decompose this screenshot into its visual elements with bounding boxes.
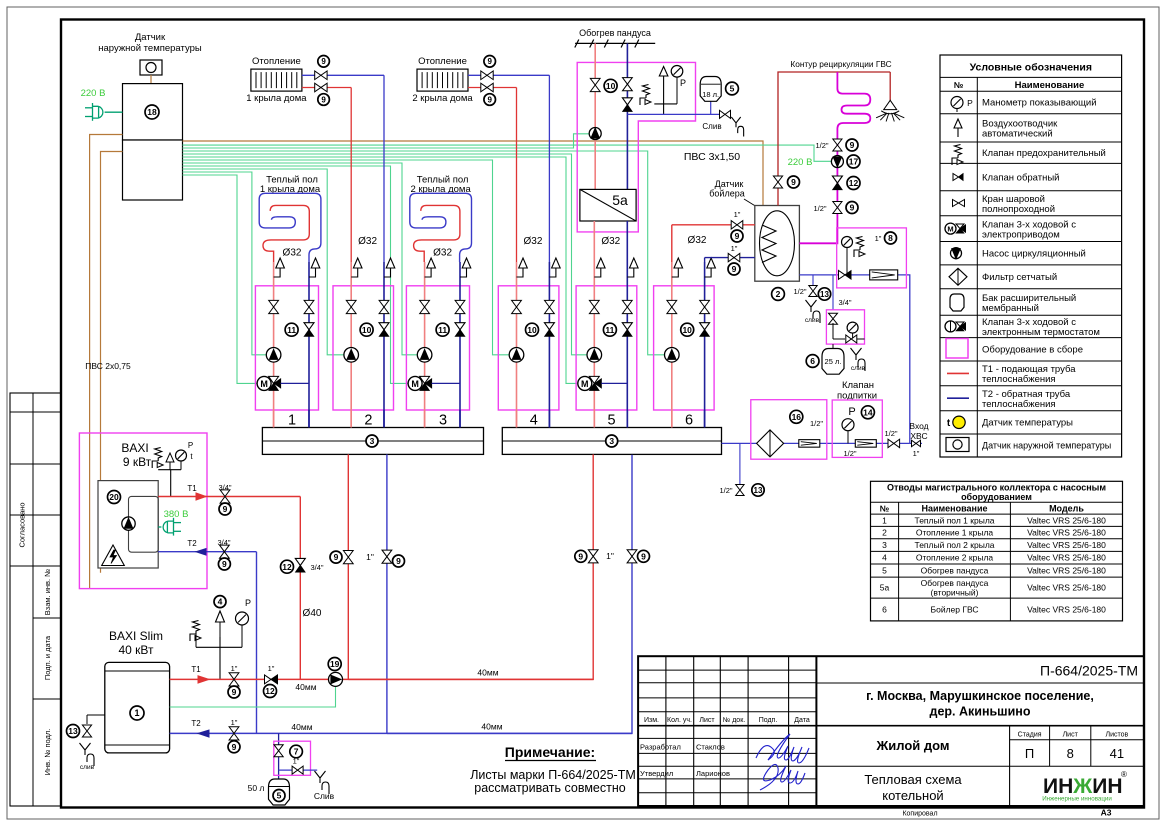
air vent return xyxy=(627,268,634,277)
svg-text:Ларионов: Ларионов xyxy=(696,769,730,778)
designator 13 xyxy=(752,484,764,496)
svg-text:12: 12 xyxy=(265,686,275,696)
check valve xyxy=(292,766,303,774)
designator 14 xyxy=(861,406,874,419)
svg-text:Ø32: Ø32 xyxy=(358,236,377,247)
svg-text:4: 4 xyxy=(882,553,887,563)
manometer xyxy=(842,419,854,431)
expansion tank 50 л xyxy=(269,779,290,805)
group 3 return pipe xyxy=(459,262,461,428)
drain hook xyxy=(315,771,330,794)
svg-text:Бойлер ГВС: Бойлер ГВС xyxy=(931,605,979,615)
control wires bundle from controller xyxy=(183,145,832,161)
svg-text:10: 10 xyxy=(682,325,692,335)
pipe stub to collector xyxy=(350,410,352,428)
svg-text:Клапан предохранительный: Клапан предохранительный xyxy=(982,148,1106,159)
safety valve xyxy=(640,85,650,106)
designator 9 xyxy=(318,94,330,106)
svg-text:Обогрев пандуса: Обогрев пандуса xyxy=(921,566,989,576)
svg-text:7: 7 xyxy=(294,747,299,757)
circulation pump group 4 xyxy=(509,348,524,363)
svg-text:9: 9 xyxy=(487,57,492,66)
designator 9 xyxy=(788,176,800,188)
drain hook xyxy=(80,743,95,766)
svg-text:11: 11 xyxy=(287,325,296,335)
svg-text:4: 4 xyxy=(218,597,223,607)
svg-text:5: 5 xyxy=(608,413,616,429)
designator 13 xyxy=(818,288,830,300)
svg-text:2: 2 xyxy=(776,289,781,299)
pipe radiator supply xyxy=(302,87,351,89)
valve ball xyxy=(315,83,327,92)
svg-text:Valtec VRS 25/6-180: Valtec VRS 25/6-180 xyxy=(1027,583,1106,593)
svg-text:220 В: 220 В xyxy=(81,88,106,99)
check valve return xyxy=(700,323,710,330)
legend table xyxy=(940,55,1122,457)
pump group 2 box xyxy=(333,286,394,410)
make-up box xyxy=(826,310,864,344)
svg-text:41: 41 xyxy=(1110,746,1124,761)
svg-text:20: 20 xyxy=(109,492,119,502)
svg-text:Лист: Лист xyxy=(1063,732,1079,739)
floor coil 2 крыла дома supply xyxy=(414,205,460,262)
air vent return xyxy=(384,268,391,277)
drain tee below collector xyxy=(739,443,741,484)
svg-text:Утвердил: Утвердил xyxy=(640,769,673,778)
svg-text:9 кВт: 9 кВт xyxy=(123,455,152,469)
svg-text:Вход: Вход xyxy=(909,421,928,431)
valve ball supply xyxy=(346,300,356,313)
designator 9 xyxy=(484,56,496,68)
svg-text:1/2": 1/2" xyxy=(810,419,823,428)
svg-text:10: 10 xyxy=(362,325,372,335)
svg-text:9: 9 xyxy=(334,552,339,562)
svg-text:Слив: Слив xyxy=(314,791,335,801)
drain hook xyxy=(731,117,743,137)
svg-text:Стаклов: Стаклов xyxy=(696,743,725,752)
pump designator 11 xyxy=(603,323,616,336)
svg-text:1": 1" xyxy=(231,718,238,727)
manometer xyxy=(842,237,853,248)
svg-text:Фильтр сетчатый: Фильтр сетчатый xyxy=(982,272,1057,283)
drain valve 13 at boiler xyxy=(87,714,105,716)
svg-text:теплоснабжения: теплоснабжения xyxy=(982,399,1056,410)
svg-text:9: 9 xyxy=(735,231,740,241)
drain tee 13 xyxy=(812,275,814,285)
svg-text:Датчик наружной температуры: Датчик наружной температуры xyxy=(982,441,1111,451)
svg-text:3: 3 xyxy=(882,540,887,550)
valve ball return xyxy=(455,300,465,313)
valve ball xyxy=(888,439,900,447)
svg-text:П: П xyxy=(1025,746,1034,761)
svg-text:11: 11 xyxy=(605,325,614,335)
air vent supply xyxy=(594,268,601,277)
supply drop from collector 2 xyxy=(348,454,593,679)
valve ball xyxy=(343,551,353,564)
circulation pump group 6 xyxy=(665,348,680,363)
svg-text:Обогрев пандуса: Обогрев пандуса xyxy=(579,28,651,38)
return drop to collector 1 xyxy=(386,454,388,733)
safety valve xyxy=(190,621,200,642)
svg-text:12: 12 xyxy=(849,178,859,188)
designator 5 xyxy=(726,82,739,95)
DHW supply from T1 xyxy=(672,224,755,226)
floor coil 1 крыла дома supply xyxy=(263,205,309,262)
sidebar label Инв. № подл. xyxy=(43,729,52,776)
drain hook xyxy=(806,300,821,323)
svg-text:1: 1 xyxy=(882,515,887,525)
group 2 supply pipe xyxy=(350,262,352,428)
svg-text:9: 9 xyxy=(487,95,492,104)
svg-text:Ø32: Ø32 xyxy=(688,235,707,246)
hot water riser xyxy=(778,72,890,206)
svg-text:№: № xyxy=(880,504,890,514)
pipe T2 to BAXI 9 xyxy=(158,551,256,553)
inlet valve xyxy=(910,442,922,444)
valve ball xyxy=(829,313,838,324)
internal pump xyxy=(122,517,135,530)
valve ball xyxy=(773,176,782,188)
svg-text:наружной температуры: наружной температуры xyxy=(98,43,202,54)
svg-text:Отопление: Отопление xyxy=(418,56,467,67)
svg-text:1: 1 xyxy=(288,413,296,429)
pipe T1 BAXI Slim xyxy=(170,678,594,680)
pump ramp circuit xyxy=(589,128,601,140)
circulation pump group 5 xyxy=(587,348,602,363)
valve ball xyxy=(623,78,633,91)
svg-text:10: 10 xyxy=(606,81,616,91)
DHW return to T2 xyxy=(705,257,755,259)
pump group 5 box xyxy=(576,286,637,410)
group 5 return pipe xyxy=(626,262,628,428)
designator 8 xyxy=(885,232,897,244)
flow arrow T2 xyxy=(196,549,206,556)
flow arrow T1 xyxy=(198,676,209,683)
svg-text:1": 1" xyxy=(913,449,920,458)
svg-text:1 крыла дома: 1 крыла дома xyxy=(246,93,307,104)
svg-text:Оборудование в сборе: Оборудование в сборе xyxy=(982,345,1083,356)
svg-text:Копировал: Копировал xyxy=(902,811,937,818)
title block object name xyxy=(816,765,1143,767)
svg-text:Слив: Слив xyxy=(702,122,721,131)
pipe stub to collector xyxy=(516,410,518,428)
valve ball return xyxy=(545,300,555,313)
sidebar stamp table xyxy=(10,393,61,806)
valve ball return xyxy=(379,300,389,313)
svg-text:9: 9 xyxy=(321,95,326,104)
title block document number xyxy=(816,682,1143,684)
svg-text:ПВС 3х1,50: ПВС 3х1,50 xyxy=(684,151,740,163)
valve ball xyxy=(481,83,493,92)
group 1 return pipe xyxy=(308,262,310,428)
plug 220V xyxy=(92,103,94,121)
circulation pump group 3 xyxy=(417,348,432,363)
svg-text:Клапан обратный: Клапан обратный xyxy=(982,172,1060,183)
svg-text:М: М xyxy=(581,379,589,389)
make-up water line xyxy=(722,442,910,444)
collector 2 (groups 4-6) xyxy=(502,428,721,455)
svg-text:8: 8 xyxy=(1067,746,1074,761)
valve ball xyxy=(229,727,239,740)
heat exchanger 5a xyxy=(580,189,636,221)
check valve return xyxy=(304,323,314,330)
designator 19 xyxy=(328,658,341,671)
controller U18 box xyxy=(123,84,183,140)
svg-text:ПВС 2х0,75: ПВС 2х0,75 xyxy=(85,361,131,371)
svg-text:Стадия: Стадия xyxy=(1018,732,1042,739)
svg-text:P: P xyxy=(848,406,855,418)
valve ball return xyxy=(622,300,632,313)
svg-text:17: 17 xyxy=(849,157,859,167)
svg-text:®: ® xyxy=(1121,770,1127,779)
svg-text:5: 5 xyxy=(882,566,887,576)
sidebar label Взам. инв. № xyxy=(43,569,52,615)
svg-text:1/2": 1/2" xyxy=(843,449,856,458)
svg-text:BAXI Slim: BAXI Slim xyxy=(109,629,163,643)
svg-text:1": 1" xyxy=(231,664,238,673)
svg-text:9: 9 xyxy=(850,203,855,213)
svg-text:9: 9 xyxy=(578,551,583,561)
svg-text:слив: слив xyxy=(80,764,95,771)
shower outlet xyxy=(889,72,891,100)
svg-text:электронным термостатом: электронным термостатом xyxy=(982,327,1100,338)
cable to boiler sensor xyxy=(183,141,764,206)
boiler internal circuit xyxy=(129,496,159,552)
air vent supply xyxy=(425,268,432,277)
boiler BAXI 9 box xyxy=(98,481,158,568)
pipe radiator supply xyxy=(468,87,517,89)
designator 9 xyxy=(728,263,740,275)
valve ball xyxy=(315,71,327,80)
designator 9 xyxy=(330,551,342,563)
svg-text:2: 2 xyxy=(882,528,887,538)
svg-text:9: 9 xyxy=(732,264,737,274)
svg-text:Кол. уч.: Кол. уч. xyxy=(667,717,692,724)
svg-text:дер. Акиньшино: дер. Акиньшино xyxy=(930,705,1031,719)
filter box 16 xyxy=(751,400,827,460)
svg-text:Т2: Т2 xyxy=(187,539,197,548)
flow arrow T2 xyxy=(198,730,209,737)
P t gauge xyxy=(176,450,187,461)
title block address xyxy=(816,725,1143,727)
svg-text:3/4": 3/4" xyxy=(838,298,851,307)
3-way valve with drive xyxy=(578,376,592,390)
svg-text:Подп. и дата: Подп. и дата xyxy=(43,635,52,680)
safety group bar xyxy=(654,103,677,105)
svg-text:автоматический: автоматический xyxy=(982,129,1053,140)
designator 7 xyxy=(290,745,303,758)
svg-text:5а: 5а xyxy=(612,192,628,208)
svg-text:Valtec VRS 25/6-180: Valtec VRS 25/6-180 xyxy=(1027,553,1106,563)
valve ball xyxy=(728,253,740,261)
air vent xyxy=(219,622,221,637)
group 6 return pipe xyxy=(704,262,706,428)
make-up box 14 xyxy=(832,400,882,457)
bypass from return xyxy=(281,382,309,384)
svg-text:13: 13 xyxy=(754,486,763,495)
svg-text:5: 5 xyxy=(277,791,282,801)
svg-text:теплоснабжения: теплоснабжения xyxy=(982,374,1056,385)
svg-text:40 кВт: 40 кВт xyxy=(118,643,154,657)
svg-text:12: 12 xyxy=(282,562,292,572)
ramp supply pipe xyxy=(594,43,596,189)
pipe stub to collector xyxy=(671,410,673,428)
valve ball xyxy=(720,110,731,118)
svg-text:мембранный: мембранный xyxy=(982,303,1039,314)
svg-text:Отопление 1 крыла: Отопление 1 крыла xyxy=(916,528,994,538)
svg-text:слив: слив xyxy=(805,317,820,324)
pump group 4 box xyxy=(498,286,559,410)
designator 9 xyxy=(575,550,587,562)
designator 12 xyxy=(847,177,860,190)
svg-text:№ док.: № док. xyxy=(723,717,745,724)
make-up tank branch xyxy=(832,275,834,310)
svg-text:1": 1" xyxy=(268,664,275,673)
BAXI 9 кВт assembly box xyxy=(79,433,207,589)
designator 9 xyxy=(731,230,743,242)
svg-text:рассматривать совместно: рассматривать совместно xyxy=(474,781,625,795)
svg-text:Насос циркуляционный: Насос циркуляционный xyxy=(982,248,1086,259)
svg-text:№: № xyxy=(954,80,964,90)
svg-text:Теплый пол 2 крыла: Теплый пол 2 крыла xyxy=(914,540,994,550)
collector 1 designator 3 xyxy=(366,435,378,447)
group 4 supply pipe xyxy=(516,262,518,428)
pump 19 power wire xyxy=(170,687,336,707)
plug 380V xyxy=(173,518,175,536)
designator 13 xyxy=(67,725,80,738)
svg-text:P: P xyxy=(680,78,686,88)
designator 9 xyxy=(484,94,496,106)
pump designator 10 xyxy=(526,323,539,336)
svg-text:Р: Р xyxy=(967,98,973,108)
svg-text:(вторичный): (вторичный) xyxy=(931,588,979,598)
svg-text:Ø32: Ø32 xyxy=(601,236,620,247)
ramp assembly box xyxy=(577,62,695,232)
safety bar xyxy=(196,646,242,648)
circulation pump group 2 xyxy=(344,348,359,363)
svg-text:BAXI: BAXI xyxy=(121,441,148,455)
air vent supply xyxy=(672,268,679,277)
svg-text:3: 3 xyxy=(439,413,447,429)
drain assembly box xyxy=(274,741,311,775)
controller designator 18 xyxy=(145,105,159,119)
designator 12 xyxy=(264,685,277,698)
safety valve xyxy=(854,237,864,258)
collector 1 (groups 1-3) xyxy=(262,428,483,455)
designator 12 xyxy=(281,560,294,573)
pump designator 11 xyxy=(285,323,298,336)
svg-text:Ø32: Ø32 xyxy=(433,248,452,259)
svg-text:9: 9 xyxy=(641,551,646,561)
svg-text:6: 6 xyxy=(810,356,815,366)
cable ПВС to BAXI Slim xyxy=(101,152,123,573)
svg-text:380 В: 380 В xyxy=(164,509,189,520)
svg-text:Разработал: Разработал xyxy=(640,743,681,752)
svg-text:Т1: Т1 xyxy=(191,665,201,674)
svg-text:Листов: Листов xyxy=(1106,732,1129,739)
svg-text:Условные обозначения: Условные обозначения xyxy=(970,62,1092,74)
designator 20 xyxy=(108,491,121,504)
check valve xyxy=(622,98,632,105)
group 5 supply pipe xyxy=(593,262,595,428)
valve ball supply xyxy=(420,300,430,313)
check valve on T1 drop xyxy=(295,558,305,565)
valve ball xyxy=(481,71,493,80)
svg-text:Изм.: Изм. xyxy=(644,717,659,724)
outdoor temperature sensor xyxy=(140,60,162,75)
supply drop from collector 1 xyxy=(347,454,349,679)
svg-text:9: 9 xyxy=(850,140,855,150)
safety valve xyxy=(152,448,162,469)
strainer xyxy=(870,270,898,280)
svg-text:П-664/2025-ТМ: П-664/2025-ТМ xyxy=(1040,663,1138,679)
svg-text:Жилой дом: Жилой дом xyxy=(875,738,949,753)
svg-text:4: 4 xyxy=(530,413,538,429)
valve ball xyxy=(382,550,392,563)
svg-text:Valtec VRS 25/6-180: Valtec VRS 25/6-180 xyxy=(1027,528,1106,538)
designator 10 xyxy=(604,79,617,92)
svg-text:3: 3 xyxy=(609,436,614,446)
svg-text:19: 19 xyxy=(330,659,340,669)
svg-text:Контур рециркуляции ГВС: Контур рециркуляции ГВС xyxy=(790,59,891,69)
valve ball xyxy=(274,745,283,757)
bypass from return xyxy=(432,382,460,384)
check valve return xyxy=(544,323,554,330)
svg-text:1": 1" xyxy=(875,234,882,243)
svg-text:40мм: 40мм xyxy=(291,722,312,732)
pipe T2 BAXI Slim xyxy=(170,732,632,734)
group 3 supply pipe xyxy=(424,262,426,428)
svg-text:М: М xyxy=(947,225,953,234)
svg-text:1": 1" xyxy=(606,551,614,561)
designator 9 xyxy=(638,550,650,562)
svg-text:1/2": 1/2" xyxy=(813,204,826,213)
valve ball return xyxy=(304,300,314,313)
pipe T1 from BAXI 9 xyxy=(158,496,300,498)
designator 1 xyxy=(130,706,144,720)
branches table xyxy=(871,481,1123,621)
designator 5 xyxy=(273,790,285,802)
boiler BAXI Slim box xyxy=(105,662,170,753)
svg-text:50 л: 50 л xyxy=(248,783,265,793)
svg-text:Отопление: Отопление xyxy=(252,56,301,67)
valve ball xyxy=(588,550,598,563)
valve ball supply xyxy=(667,300,677,313)
svg-text:13: 13 xyxy=(68,726,78,736)
svg-text:5а: 5а xyxy=(880,583,890,593)
valve ball return xyxy=(700,300,710,313)
cable ПВС to BAXI 9 xyxy=(90,135,123,589)
svg-text:г. Москва, Марушкинское поселе: г. Москва, Марушкинское поселение, xyxy=(866,689,1094,703)
check valve xyxy=(265,675,272,684)
svg-text:9: 9 xyxy=(223,504,228,514)
bypass from return xyxy=(601,382,627,384)
svg-text:Наименование: Наименование xyxy=(1015,80,1085,91)
check valve return xyxy=(379,323,389,330)
title block stage columns xyxy=(1009,726,1011,806)
svg-text:1/2": 1/2" xyxy=(719,486,732,495)
pipe stub to collector xyxy=(593,410,595,428)
pump group 3 box xyxy=(406,286,469,410)
svg-text:6: 6 xyxy=(882,605,887,615)
svg-text:Взам. инв. №: Взам. инв. № xyxy=(43,569,52,615)
recirculation pump 17 xyxy=(831,156,843,168)
svg-text:Наименование: Наименование xyxy=(921,504,987,514)
group 6 riser return xyxy=(704,258,706,262)
svg-text:10: 10 xyxy=(527,325,537,335)
svg-text:Подп.: Подп. xyxy=(759,717,778,724)
valve ball xyxy=(229,673,239,686)
